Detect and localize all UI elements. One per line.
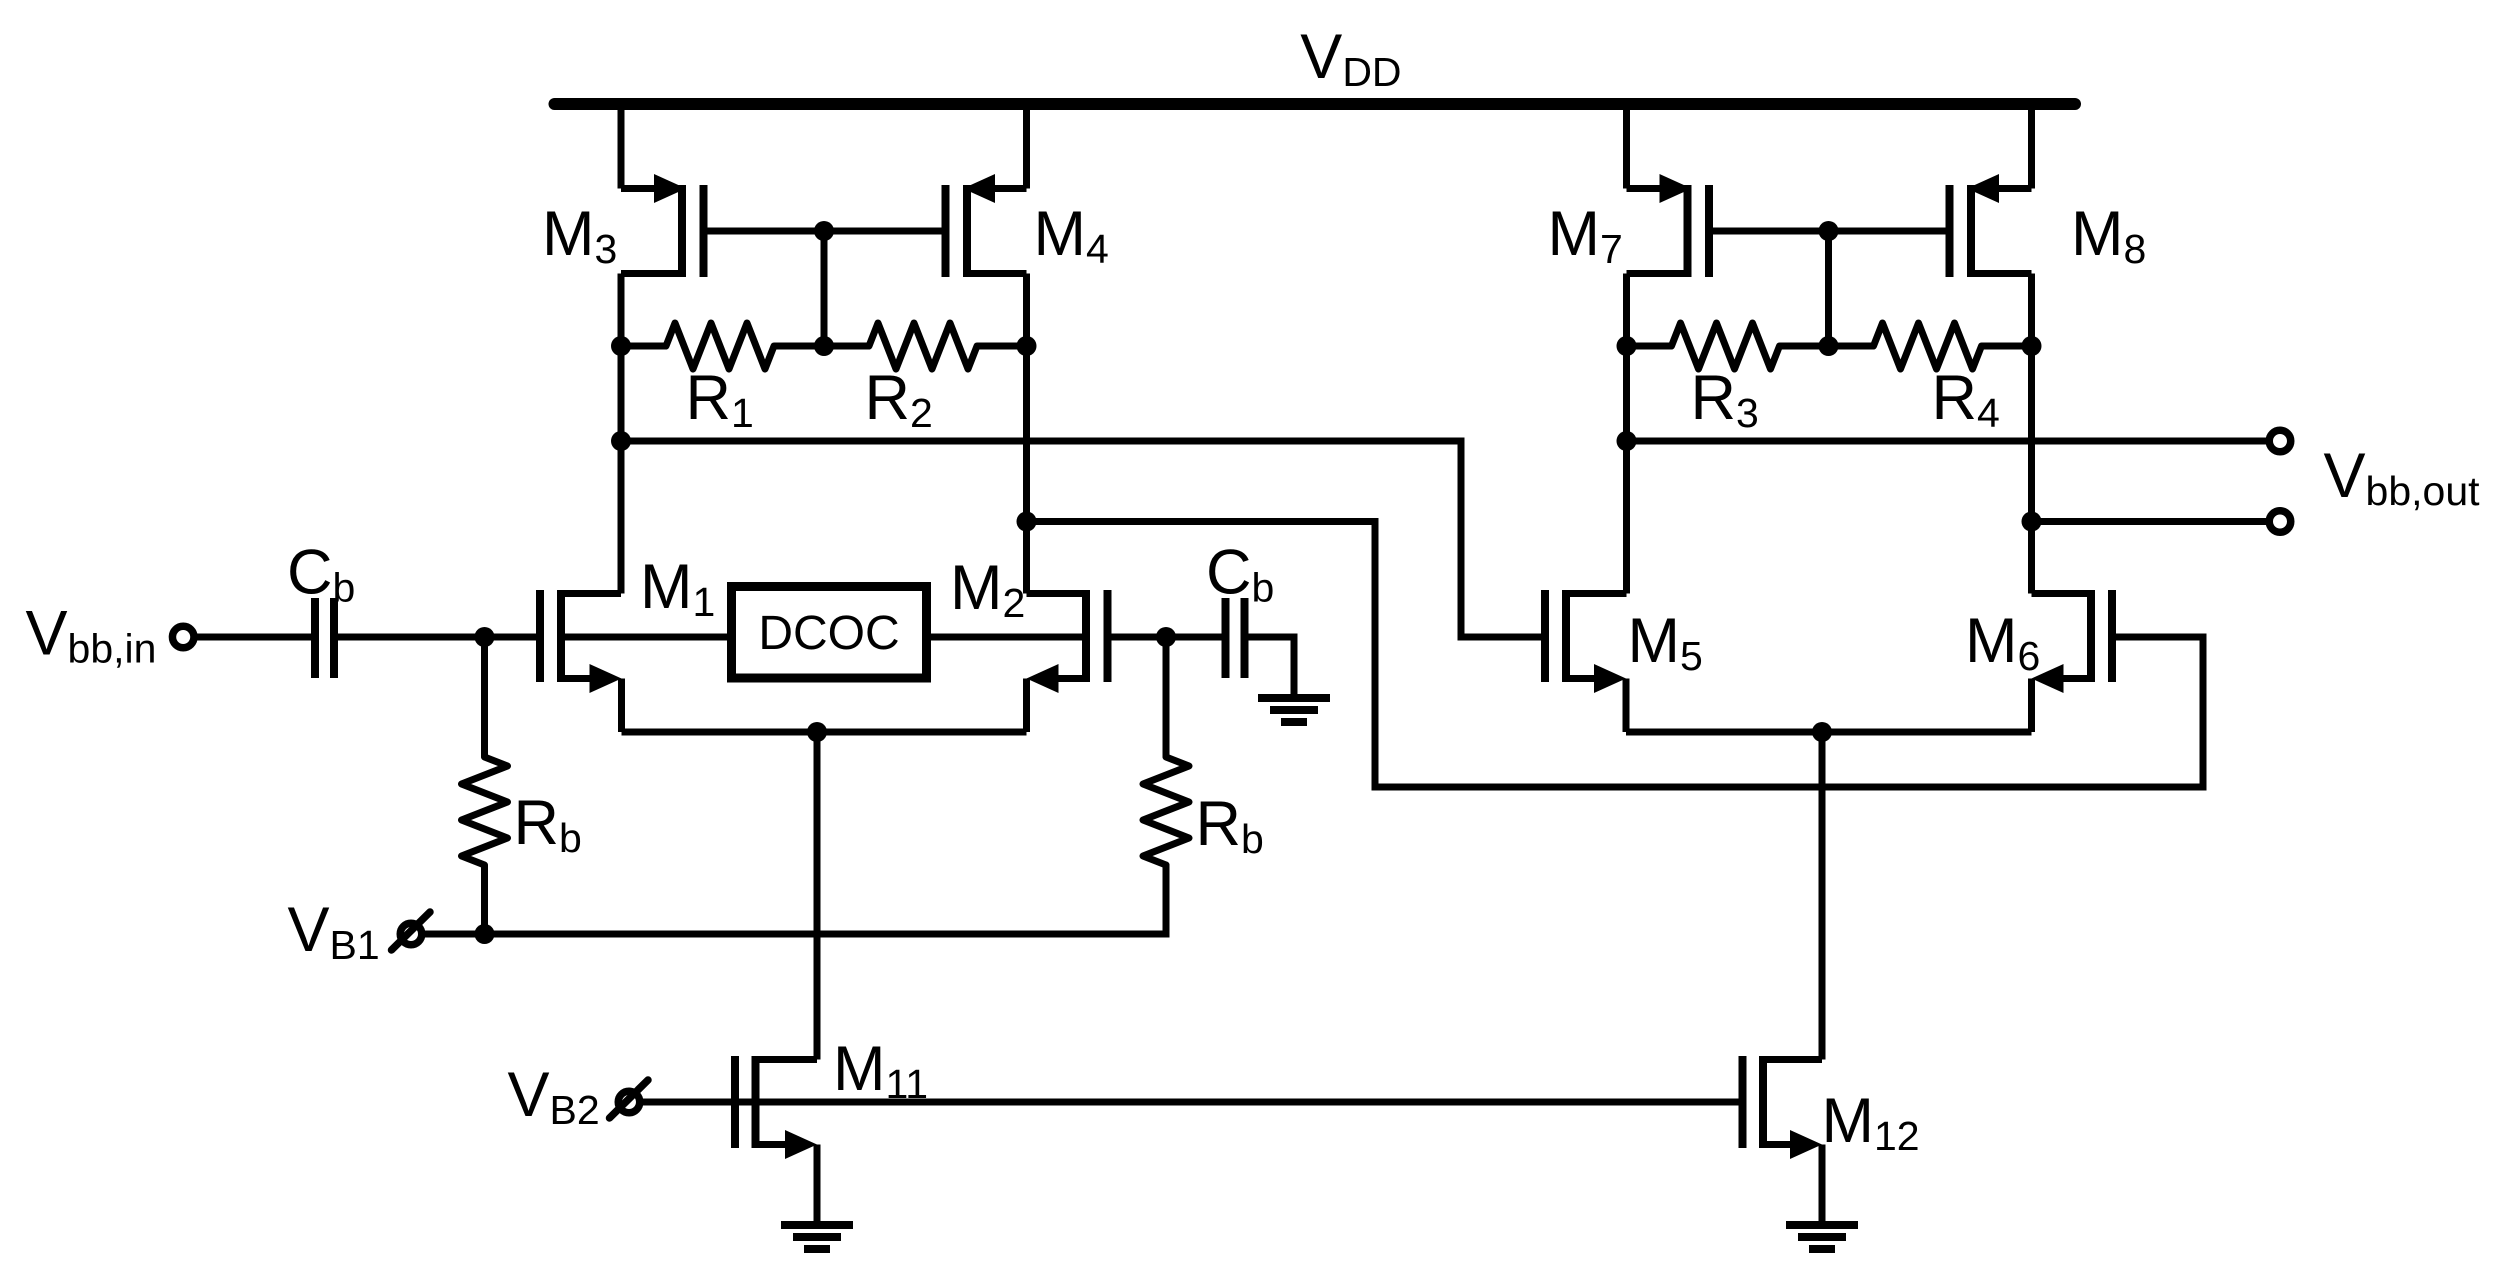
wire M3-M4 gate row: [704, 228, 946, 235]
svg-text:M7: M7: [1548, 199, 1623, 272]
ground (M11 source): [781, 1221, 853, 1229]
node VB1/Rb junction: [475, 924, 495, 944]
resistor Rb (left): [462, 637, 508, 934]
node stage1 left output: [611, 431, 631, 451]
node M2 gate input: [1156, 627, 1176, 647]
wire bottom output: [2032, 518, 2267, 525]
svg-text:M11: M11: [833, 1034, 928, 1107]
node R1/R2 mid: [814, 336, 834, 356]
wire M1 bulk to DCOC: [561, 634, 727, 641]
transistor M12 (NMOS tail): [1743, 1056, 1823, 1225]
resistor Rb (right): [1143, 637, 1189, 865]
wire Cb to M1 gate node: [338, 634, 485, 641]
node R3 left: [1617, 336, 1637, 356]
svg-text:M2: M2: [950, 553, 1025, 626]
wire M3 drain column: [618, 346, 625, 594]
node stage2 bottom output: [2022, 512, 2042, 532]
svg-text:M4: M4: [1034, 199, 1109, 272]
wire M2 gate lead: [1108, 634, 1167, 641]
node stage1 tail junction: [807, 722, 827, 742]
svg-text:Vbb,out: Vbb,out: [2324, 441, 2481, 514]
ground (Cb right): [1258, 694, 1330, 702]
transistor M8 (PMOS): [1950, 104, 2032, 346]
node M1 gate input: [475, 627, 495, 647]
wire top output: [1627, 438, 2267, 445]
wire M8 drain column: [2028, 346, 2035, 594]
node stage1 gate/mid junction: [814, 221, 834, 241]
svg-text:Cb: Cb: [287, 538, 355, 611]
wire VB1 to Rb node: [421, 931, 485, 938]
capacitor Cb (input): [315, 598, 334, 678]
node stage2 tail junction: [1812, 722, 1832, 742]
wire M1/M2 common source row: [622, 729, 1027, 736]
svg-text:M6: M6: [1965, 606, 2040, 679]
wire tail to M12 drain: [1819, 732, 1826, 1060]
terminal Vbb,out-: [2269, 511, 2291, 533]
capacitor Cb (right): [1226, 598, 1245, 678]
power rail VDD: [555, 98, 2076, 110]
wire M7-M8 gate row: [1709, 228, 1950, 235]
resistor R2: [824, 323, 1027, 369]
terminal VB1: [400, 923, 422, 945]
svg-text:DCOC: DCOC: [758, 607, 899, 660]
wire M1 gate lead: [485, 634, 541, 641]
wire stage1 right output to M6 gate: [1027, 522, 2204, 788]
wire M2 bulk to DCOC: [931, 634, 1086, 641]
terminal Vbb,out+: [2269, 430, 2291, 452]
svg-text:Rb: Rb: [1196, 789, 1264, 862]
wire M4 drain column: [1023, 346, 1030, 594]
transistor M1 (NMOS): [540, 590, 622, 732]
svg-text:M8: M8: [2071, 199, 2146, 272]
resistor R3: [1627, 323, 1829, 369]
svg-text:M1: M1: [640, 552, 715, 625]
transistor M3 (PMOS): [621, 104, 704, 346]
resistor R1: [621, 323, 824, 369]
wire Vbb,in to Cb: [197, 634, 311, 641]
svg-text:M3: M3: [542, 199, 617, 272]
transistor M4 (PMOS): [946, 104, 1027, 346]
transistor M2 (NMOS): [1027, 590, 1108, 732]
svg-text:Rb: Rb: [514, 788, 582, 861]
svg-text:M12: M12: [1822, 1086, 1920, 1159]
svg-text:VDD: VDD: [1300, 22, 1401, 95]
wire Cb right to ground: [1249, 637, 1295, 698]
terminal VB2: [618, 1091, 640, 1113]
wire M7 drain column: [1623, 346, 1630, 594]
resistor R4: [1829, 323, 2032, 369]
wire M2 gate node to Cb: [1166, 634, 1222, 641]
wire VB1 row to right Rb: [485, 865, 1167, 934]
wire stage1 left output to M5 gate: [621, 441, 1545, 637]
transistor M6 (NMOS): [2032, 590, 2113, 732]
transistor M11 (NMOS tail): [735, 1056, 817, 1225]
wire mid column stage2: [1825, 231, 1832, 346]
svg-text:VB2: VB2: [508, 1060, 600, 1133]
ground (M12 source): [1786, 1221, 1858, 1229]
svg-text:Cb: Cb: [1206, 538, 1274, 611]
svg-text:R3: R3: [1691, 363, 1759, 436]
wire VB2 to M11/M12 gates: [639, 1099, 1743, 1106]
wire tail to M11 drain: [814, 732, 821, 1060]
node R4 right: [2022, 336, 2042, 356]
node stage1 right output: [1017, 512, 1037, 532]
block DCOC: [732, 587, 927, 679]
terminal Vbb,in: [172, 626, 194, 648]
node R3/R4 mid: [1819, 336, 1839, 356]
node R2 right: [1017, 336, 1037, 356]
transistor M7 (PMOS): [1627, 104, 1710, 346]
node stage2 gate/mid junction: [1819, 221, 1839, 241]
wire M5/M6 common source row: [1626, 729, 2032, 736]
svg-text:R1: R1: [686, 363, 754, 436]
wire mid column stage1: [821, 231, 828, 346]
svg-text:Vbb,in: Vbb,in: [26, 599, 157, 672]
svg-text:R2: R2: [865, 363, 933, 436]
node stage2 top output: [1617, 431, 1637, 451]
svg-text:VB1: VB1: [288, 895, 380, 968]
svg-text:R4: R4: [1932, 363, 2000, 436]
transistor M5 (NMOS): [1545, 590, 1627, 732]
svg-text:M5: M5: [1628, 606, 1703, 679]
node R1 left: [611, 336, 631, 356]
